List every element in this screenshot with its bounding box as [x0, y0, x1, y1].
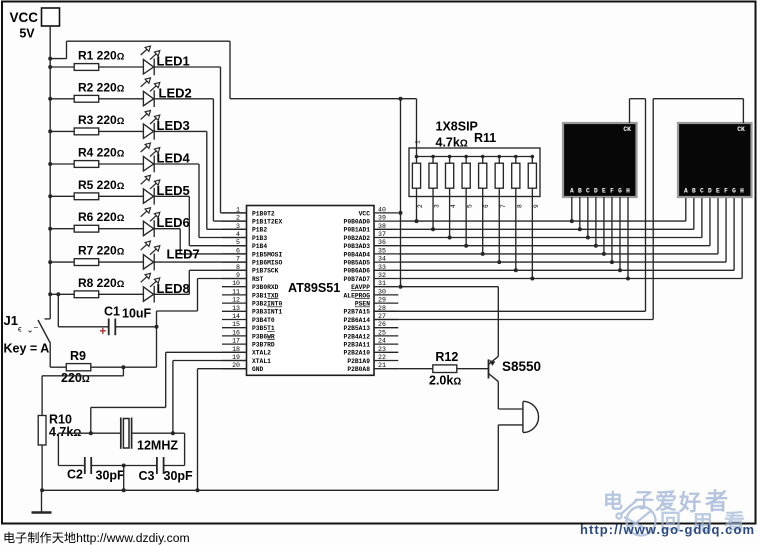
svg-text:11: 11 [232, 288, 240, 295]
svg-text:10: 10 [232, 280, 240, 287]
svg-text:1: 1 [415, 140, 422, 144]
svg-text:B: B [692, 188, 696, 195]
wire: P0.7 bus to displays [398, 197, 742, 279]
wire: emitter to VCC/EA line [401, 287, 499, 357]
svg-text:2.0kΩ: 2.0kΩ [429, 374, 461, 388]
pin 14 P3B4T0 [222, 313, 275, 324]
pin 6 P1B5MOSI [222, 247, 282, 258]
svg-text:2: 2 [236, 215, 240, 222]
resistor R8 220&#937; [48, 276, 143, 298]
svg-text:F: F [724, 188, 728, 195]
pin 23 P2B2A10 [344, 346, 399, 357]
svg-text:20: 20 [232, 362, 240, 369]
wire: LED2 cathode to P1.1 (pin 2) [154, 99, 246, 221]
pin 36 P0B3AD3 [344, 239, 399, 250]
svg-text:C2: C2 [67, 468, 83, 482]
svg-text:S8550: S8550 [502, 359, 541, 374]
LED1 [141, 46, 190, 75]
wire: collector to speaker [498, 382, 523, 409]
svg-text:P3B3INT1: P3B3INT1 [252, 309, 282, 316]
svg-text:LED1: LED1 [157, 54, 190, 69]
svg-text:P1B5MOSI: P1B5MOSI [252, 251, 282, 258]
wire: display U2 pin F [610, 197, 614, 264]
svg-text:9: 9 [236, 272, 240, 279]
pin 27 P2B6A14 [344, 313, 399, 324]
svg-text:R9: R9 [70, 349, 86, 363]
pin 40 VCC [359, 206, 399, 217]
svg-text:P3B7RD: P3B7RD [252, 342, 275, 349]
wire: LED1 cathode to P1.0 (pin 1) [154, 67, 246, 213]
transistor Q1 S8550 (PNP) [489, 356, 542, 381]
wire: display U2 pin D [594, 197, 598, 248]
svg-text:XTAL2: XTAL2 [252, 350, 271, 357]
svg-text:5: 5 [236, 239, 240, 246]
svg-text:34: 34 [378, 256, 386, 263]
svg-text:RST: RST [252, 276, 264, 283]
resistor R5 220&#937; [48, 178, 143, 200]
pin 20 GND [222, 362, 264, 373]
wire: LED4 cathode to P1.3 (pin 4) [154, 164, 246, 238]
wire: VCC to pin 40 and EA/VPP (pin 31) [399, 97, 403, 289]
svg-text:G: G [732, 188, 736, 195]
pin 13 P3B3INT1 [222, 305, 282, 316]
svg-text:P1B7SCK: P1B7SCK [252, 268, 279, 275]
display U2 (bargraph, CK A-H) [563, 123, 637, 197]
svg-text:8: 8 [516, 204, 523, 208]
R11 element 4 (pin 5) [462, 155, 474, 248]
svg-text:5V: 5V [19, 27, 35, 41]
power symbol VCC 5V [9, 8, 59, 41]
svg-text:R6 220Ω: R6 220Ω [78, 210, 125, 224]
pin 24 P2B3A11 [344, 338, 399, 349]
svg-text:Key = A: Key = A [4, 342, 50, 356]
svg-text:VCC: VCC [359, 210, 371, 217]
pin 5 P1B4 [222, 239, 267, 250]
switch J1 Key = A [4, 313, 51, 367]
wire: speaker to ground rail [498, 425, 523, 490]
resistor R3 220&#937; [48, 113, 143, 135]
watermark: go-gddq logo & text [603, 488, 745, 536]
svg-text:12MHZ: 12MHZ [137, 439, 178, 453]
SIP common rail [417, 156, 533, 158]
svg-text:39: 39 [378, 215, 386, 222]
capacitor C2 30pF [67, 457, 157, 483]
svg-text:C3: C3 [139, 469, 155, 483]
svg-text:R8 220Ω: R8 220Ω [78, 276, 125, 290]
svg-text:6: 6 [236, 247, 240, 254]
svg-text:PSEN: PSEN [355, 301, 370, 308]
pin 10 P3B0RXD [222, 280, 279, 291]
svg-text:8: 8 [236, 264, 240, 271]
resistor network R11 1X8SIP 4.7k [409, 120, 540, 197]
svg-text:R1 220Ω: R1 220Ω [78, 49, 125, 63]
svg-text:10uF: 10uF [122, 307, 152, 321]
wire: SIP common pin 1 [415, 99, 422, 157]
svg-text:H: H [740, 188, 744, 195]
resistor R1 220&#937; [48, 49, 143, 71]
svg-text:R2 220Ω: R2 220Ω [78, 80, 125, 94]
svg-text:C: C [700, 188, 704, 195]
svg-text:P2B3A11: P2B3A11 [344, 342, 371, 349]
svg-text:30: 30 [378, 288, 386, 295]
svg-text:7: 7 [500, 204, 507, 208]
wire: display U2 pin G [618, 197, 622, 272]
svg-text:P2B2A10: P2B2A10 [344, 350, 371, 357]
resistor R12 2.0k&#937; [398, 350, 488, 388]
R11 element 8 (pin 9) [528, 155, 540, 281]
wire: P0.3 bus to displays [398, 197, 710, 246]
wire: XTAL1 to crystal [173, 361, 247, 434]
pin 19 XTAL1 [222, 354, 271, 365]
svg-text:LED3: LED3 [157, 118, 190, 133]
svg-text:C: C [586, 188, 590, 195]
svg-text:P3B6WR: P3B6WR [252, 333, 275, 340]
pin 28 P2B7A15 [344, 305, 399, 316]
svg-text:4: 4 [450, 204, 457, 208]
svg-text:R7 220Ω: R7 220Ω [78, 244, 125, 258]
resistor R7 220&#937; [48, 244, 143, 266]
svg-text:http://www.go-gddq.com: http://www.go-gddq.com [580, 522, 754, 537]
pin 34 P0B5AD5 [344, 256, 399, 267]
pin 7 P1B6MISO [222, 256, 282, 267]
wire: P0.5 bus to displays [398, 197, 726, 262]
svg-text:−: − [34, 323, 39, 332]
svg-text:4.7kΩ: 4.7kΩ [49, 425, 81, 439]
resistor R9 220&#937; [50, 349, 156, 385]
svg-text:LED2: LED2 [159, 85, 192, 100]
wire: RST node to pin 9 [157, 279, 247, 368]
pin 21 P2B0A8 [347, 362, 398, 373]
LED3 [141, 110, 190, 139]
svg-text:GND: GND [252, 366, 264, 373]
svg-text:ALEPROG: ALEPROG [344, 292, 371, 299]
wire: display U2 pin C [586, 197, 590, 240]
pin 17 P3B7RD [222, 338, 275, 349]
svg-text:E: E [602, 188, 606, 195]
svg-text:LED8: LED8 [157, 281, 190, 296]
svg-text:+: + [100, 326, 107, 338]
svg-text:6: 6 [483, 204, 490, 208]
pin 32 P0B7AD7 [344, 272, 399, 283]
wire: LED7 cathode to P1.6 (pin 7) [154, 261, 246, 263]
svg-text:P0B1AD1: P0B1AD1 [344, 227, 371, 234]
wire: P0.4 bus to displays [398, 197, 718, 254]
wire: display U2 pin E [602, 197, 606, 256]
pin 12 P3B2INT0 [222, 297, 282, 308]
svg-text:CK: CK [623, 126, 631, 133]
pin 22 P2B1A9 [347, 354, 398, 365]
svg-text:4: 4 [236, 231, 240, 238]
svg-text:38: 38 [378, 223, 386, 230]
capacitor C1 10uF [56, 292, 158, 338]
svg-text:R3 220Ω: R3 220Ω [78, 113, 125, 127]
svg-text:17: 17 [232, 338, 240, 345]
svg-text:12: 12 [232, 297, 240, 304]
svg-text:P2B4A12: P2B4A12 [344, 333, 371, 340]
LED8 [141, 273, 190, 302]
svg-text:P2B0A8: P2B0A8 [347, 366, 370, 373]
R11 element 1 (pin 2) [412, 155, 424, 223]
svg-text:P3B5T1: P3B5T1 [252, 325, 275, 332]
wire: XTAL2 to crystal [91, 352, 247, 433]
svg-text:33: 33 [378, 264, 386, 271]
svg-text:P0B7AD7: P0B7AD7 [344, 276, 371, 283]
svg-text:35: 35 [378, 247, 386, 254]
R11 element 2 (pin 3) [429, 155, 441, 232]
wire: P0.1 bus to displays [398, 197, 694, 229]
wire: GND pin 20 to rail [198, 369, 247, 491]
wire: LED6 cathode to P1.5 (pin 6) [154, 229, 246, 254]
svg-text:1X8SIP: 1X8SIP [436, 120, 478, 134]
svg-text:4.7kΩ: 4.7kΩ [436, 136, 468, 150]
wire: LED8 cathode to P1.7 (pin 8) [154, 270, 246, 294]
svg-text:24: 24 [378, 338, 386, 345]
svg-text:ϵ: ϵ [18, 324, 22, 334]
svg-text:C1: C1 [104, 305, 120, 319]
svg-text:G: G [618, 188, 622, 195]
svg-text:D: D [594, 188, 598, 195]
svg-text:36: 36 [378, 239, 386, 246]
pin 37 P0B2AD2 [344, 231, 399, 242]
svg-text:VCC: VCC [9, 10, 38, 25]
svg-text:5: 5 [467, 204, 474, 208]
svg-text:LED4: LED4 [157, 151, 191, 166]
pin 26 P2B5A13 [344, 321, 399, 332]
LED7 [141, 241, 200, 270]
svg-text:R4 220Ω: R4 220Ω [78, 146, 125, 160]
svg-text:LED7: LED7 [167, 247, 200, 262]
svg-text:14: 14 [232, 313, 240, 320]
op-amp/MCU U1 AT89S51 body [247, 206, 375, 376]
svg-text:15: 15 [232, 321, 240, 328]
R11 element 5 (pin 6) [479, 155, 491, 256]
resistor R2 220&#937; [48, 80, 143, 102]
pin 31 EAVPP [351, 280, 398, 291]
svg-text:22: 22 [378, 354, 386, 361]
svg-text:LED5: LED5 [157, 183, 190, 198]
wire: VCC rail (left) [49, 26, 51, 319]
svg-text:H: H [626, 188, 630, 195]
pin 1 P1B0T2 [222, 206, 275, 217]
svg-text:P0B5AD5: P0B5AD5 [344, 260, 371, 267]
svg-text:13: 13 [232, 305, 240, 312]
svg-text:31: 31 [378, 280, 386, 287]
svg-text:220Ω: 220Ω [61, 371, 90, 385]
svg-text:P1B6MISO: P1B6MISO [252, 260, 282, 267]
svg-text:2: 2 [417, 204, 424, 208]
svg-text:P2B5A13: P2B5A13 [344, 325, 371, 332]
svg-text:P3B2INT0: P3B2INT0 [252, 301, 282, 308]
svg-text:电子制作天地http://www.dzdiy.com: 电子制作天地http://www.dzdiy.com [3, 531, 190, 545]
svg-text:E: E [716, 188, 720, 195]
wire: display U2 pin B [578, 197, 582, 231]
svg-text:P0B2AD2: P0B2AD2 [344, 235, 371, 242]
pin 18 XTAL2 [222, 346, 271, 357]
svg-text:XTAL1: XTAL1 [252, 358, 271, 365]
R11 element 7 (pin 8) [512, 155, 524, 273]
svg-text:30pF: 30pF [96, 469, 126, 483]
svg-text:R11: R11 [474, 131, 496, 145]
pin 9 RST [222, 272, 264, 283]
pin 25 P2B4A12 [344, 329, 399, 340]
capacitor C3 30pF [139, 433, 194, 483]
pin 4 P1B3 [222, 231, 267, 242]
pin 15 P3B5T1 [222, 321, 275, 332]
crystal X1 12MHZ [58, 418, 184, 453]
svg-text:30pF: 30pF [164, 469, 194, 483]
speaker LS1 [523, 401, 539, 432]
svg-text:19: 19 [232, 354, 240, 361]
svg-text:LED6: LED6 [157, 215, 190, 230]
wire: GND mid branch [123, 466, 125, 491]
svg-text:37: 37 [378, 231, 386, 238]
svg-text:F: F [610, 188, 614, 195]
svg-text:3: 3 [434, 204, 441, 208]
svg-text:P3B0RXD: P3B0RXD [252, 284, 279, 291]
svg-text:J1: J1 [4, 313, 18, 328]
svg-text:P1B4: P1B4 [252, 243, 267, 250]
svg-text:1: 1 [236, 206, 240, 213]
svg-text:P1B2: P1B2 [252, 227, 267, 234]
LED5 [141, 175, 190, 204]
svg-text:P0B4AD4: P0B4AD4 [344, 251, 371, 258]
svg-text:P3B4T0: P3B4T0 [252, 317, 275, 324]
ground symbol [32, 490, 52, 512]
svg-text:R12: R12 [435, 350, 458, 364]
svg-text:29: 29 [378, 297, 386, 304]
svg-text:P1B3: P1B3 [252, 235, 267, 242]
svg-text:P0B0AD0: P0B0AD0 [344, 219, 371, 226]
svg-text:B: B [578, 188, 582, 195]
svg-text:P2B7A15: P2B7A15 [344, 309, 371, 316]
svg-text:CK: CK [737, 126, 745, 133]
wire: P0.0 bus to displays [398, 197, 686, 221]
svg-text:P0B3AD3: P0B3AD3 [344, 243, 371, 250]
svg-text:P2B6A14: P2B6A14 [344, 317, 371, 324]
resistor R6 220&#937; [48, 210, 143, 232]
svg-text:21: 21 [378, 362, 386, 369]
resistor R4 220&#937; [48, 146, 143, 168]
svg-text:P3B1TXD: P3B1TXD [252, 292, 279, 299]
resistor R10 4.7k&#937; [38, 367, 123, 490]
svg-text:9: 9 [533, 204, 540, 208]
LED2 [141, 78, 192, 107]
svg-text:P1B1T2EX: P1B1T2EX [252, 219, 282, 226]
svg-text:EAVPP: EAVPP [351, 284, 370, 291]
pin 35 P0B4AD4 [344, 247, 399, 258]
svg-text:16: 16 [232, 329, 240, 336]
svg-text:P1B0T2: P1B0T2 [252, 210, 275, 217]
svg-text:25: 25 [378, 329, 386, 336]
wire: P2.7 (pin 28) to U2 CK [374, 99, 646, 312]
pin 30 ALEPROG [344, 288, 399, 299]
svg-text:7: 7 [236, 256, 240, 263]
svg-text:AT89S51: AT89S51 [288, 281, 340, 295]
pin 29 PSEN [355, 297, 398, 308]
LED4 [141, 143, 191, 172]
svg-text:R5 220Ω: R5 220Ω [78, 178, 125, 192]
svg-text:P2B1A9: P2B1A9 [347, 358, 370, 365]
svg-text:18: 18 [232, 346, 240, 353]
svg-text:P0B6AD6: P0B6AD6 [344, 268, 371, 275]
svg-text:D: D [708, 188, 712, 195]
svg-text:26: 26 [378, 321, 386, 328]
wire: ground rail [40, 488, 498, 492]
wire: P0.2 bus to displays [398, 197, 702, 238]
pin 8 P1B7SCK [222, 264, 279, 275]
wire: P2.6 (pin 27) to U3 CK [374, 99, 743, 320]
wire: P0.6 bus to displays [398, 197, 734, 270]
R11 element 6 (pin 7) [495, 155, 507, 264]
svg-text:电: 电 [603, 490, 623, 513]
svg-text:A: A [684, 188, 688, 195]
svg-text:3: 3 [236, 223, 240, 230]
pin 2 P1B1T2EX [222, 215, 282, 226]
pin 11 P3B1TXD [222, 288, 279, 299]
pin 39 P0B0AD0 [344, 215, 399, 226]
pin 16 P3B6WR [222, 329, 275, 340]
svg-text:23: 23 [378, 346, 386, 353]
R11 element 3 (pin 4) [446, 155, 458, 240]
wire: display U2 pin A [570, 197, 574, 223]
pin 38 P0B1AD1 [344, 223, 399, 234]
wire: display U2 pin H [626, 197, 630, 281]
svg-text:40: 40 [378, 206, 386, 213]
wire: VCC to MCU/SIP supply bus [48, 41, 416, 98]
wire: LED5 cathode to P1.4 (pin 5) [154, 196, 246, 245]
display U3 (bargraph, CK A-H) [678, 123, 752, 197]
LED6 [141, 208, 190, 237]
wire: crystal loop left [58, 433, 84, 465]
pin 33 P0B6AD6 [344, 264, 399, 275]
wire: LED3 cathode to P1.2 (pin 3) [154, 131, 246, 229]
pin 3 P1B2 [222, 223, 267, 234]
svg-text:32: 32 [378, 272, 386, 279]
svg-text:A: A [570, 188, 574, 195]
